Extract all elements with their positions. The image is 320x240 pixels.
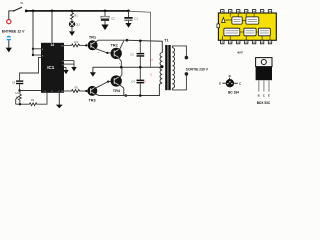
ground (C2) [101, 25, 108, 31]
notch [217, 24, 220, 28]
terminal - (blue) [6, 36, 11, 41]
svg-text:c: c [123, 47, 124, 49]
internal block D [244, 28, 256, 36]
wire pin14 to rail [51, 11, 53, 43]
svg-text:B: B [229, 74, 231, 78]
transistor BDX53C package [256, 58, 272, 106]
node rail-pin14 [51, 10, 54, 13]
resistor R1 [71, 11, 79, 20]
svg-text:SORTIE 230 V: SORTIE 230 V [186, 67, 209, 71]
svg-text:c: c [123, 75, 124, 77]
wire from + terminal to switch [9, 11, 14, 19]
svg-text:R2: R2 [31, 98, 35, 102]
wire stub pin upper [33, 48, 41, 50]
body [218, 13, 276, 40]
wire rail extension to transformer feed [129, 11, 151, 67]
node output terminal top [185, 56, 189, 60]
svg-text:C1: C1 [134, 17, 138, 21]
internal block C [224, 28, 240, 36]
ground (center line) [90, 67, 96, 76]
node rail-R1 [71, 10, 74, 13]
core [165, 45, 167, 90]
node C3 top [139, 40, 142, 43]
wire R1 to DL1 [71, 20, 73, 21]
terminal + (red, input 12V) [7, 20, 11, 24]
node TR1 base [85, 44, 87, 46]
pin marks [222, 11, 223, 12]
node IC left pin lower [32, 54, 34, 56]
node TR4 emitter junction [125, 94, 128, 97]
svg-text:TR3: TR3 [88, 98, 95, 102]
wire IC pin to timing network [20, 57, 42, 80]
4047 package drawing [217, 10, 276, 55]
node C3/C4 junction [139, 66, 142, 69]
triangle marker [222, 17, 226, 22]
transistor BC184 pinout [219, 74, 241, 95]
wire DL1 to ground [71, 27, 73, 31]
capacitor C4 [131, 67, 146, 95]
ground (DL1) [69, 31, 75, 36]
wire TR2 collector to transformer primary top [127, 40, 162, 52]
node rail-x33 [32, 10, 35, 13]
node TR2 base [106, 52, 108, 54]
node rail-C2 [104, 10, 107, 13]
svg-text:ENTREE 12 V: ENTREE 12 V [2, 30, 25, 34]
wire center line (emitters / center tap) [93, 66, 162, 68]
resistor R2 [29, 98, 37, 106]
wire +12V top rail [26, 10, 128, 12]
node timing RC [18, 89, 21, 92]
node center tap [161, 65, 164, 68]
svg-text:TR2: TR2 [111, 44, 118, 48]
ground (IC pins a) [71, 67, 76, 71]
transformer T1 [160, 39, 175, 90]
node output terminal bottom [185, 72, 189, 76]
svg-text:C: C [263, 93, 265, 97]
wire rail to C1 [128, 11, 130, 17]
svg-text:BC 184: BC 184 [228, 91, 239, 95]
transistor TR3 [88, 85, 99, 102]
node switch contact [25, 10, 28, 13]
pins top row [221, 10, 224, 14]
capacitor C2 [101, 16, 115, 21]
wire TR4 collector up [120, 67, 122, 77]
svg-text:E: E [219, 81, 221, 85]
ground (C1) [125, 23, 131, 28]
svg-text:TR1: TR1 [89, 35, 96, 39]
wire secondary bottom from output [172, 76, 186, 90]
wire stub pin lower [33, 54, 41, 56]
wire pin11 to R5 [64, 90, 72, 92]
svg-text:C: C [239, 81, 241, 85]
wire IC ground pin [58, 93, 60, 105]
svg-text:C4: C4 [131, 79, 135, 83]
wire pin10 to R4 [64, 44, 72, 46]
svg-text:IC1: IC1 [47, 65, 55, 70]
transistor TR1 [89, 35, 100, 53]
capacitor C1 [124, 17, 138, 21]
wire TR1 emitter to TR2 base [96, 49, 111, 53]
node C4 bottom [139, 94, 142, 97]
internal block A [232, 17, 242, 24]
svg-text:R5: R5 [74, 85, 78, 89]
transistor TR2 [111, 44, 124, 65]
svg-text:R4: R4 [74, 40, 78, 44]
svg-text:R1: R1 [74, 13, 78, 17]
wire C2 to ground [104, 21, 106, 25]
capacitor C3 [130, 41, 144, 67]
internal wires [229, 14, 231, 17]
svg-text:E: E [268, 93, 270, 97]
wire rail to C2 [104, 11, 106, 16]
capacitor C5 (timing) [12, 80, 23, 90]
svg-text:14: 14 [50, 43, 54, 47]
svg-text:T1: T1 [164, 39, 168, 43]
node TR4 base [107, 81, 109, 83]
wire RC node to IC pin [20, 90, 42, 92]
internal block E [258, 28, 270, 36]
wire secondary top to output [172, 46, 186, 56]
svg-text:4047: 4047 [237, 50, 243, 54]
svg-text:DL1: DL1 [76, 23, 81, 27]
node rail-C1 [127, 10, 130, 13]
pins bottom row [221, 40, 224, 44]
node TR1/TR2 collectors [126, 39, 129, 42]
trimmer AJ1 [15, 91, 21, 105]
primary winding [160, 53, 162, 83]
switch S1 [13, 1, 24, 12]
resistor R4 [72, 40, 81, 47]
svg-text:C2: C2 [111, 17, 115, 21]
LED DL1 [69, 21, 81, 27]
wire R4 to TR1 base [80, 44, 86, 46]
ground (IC pins b) [63, 70, 68, 74]
wire TR1 collector [96, 40, 127, 42]
wire rail to IC left pins [32, 11, 34, 55]
internal block B [246, 17, 259, 24]
node trimmer bottom [19, 103, 21, 105]
wire R5 to TR3 base [80, 90, 86, 92]
svg-text:TR4: TR4 [113, 89, 121, 93]
wire wiper line [16, 103, 30, 105]
node TR3 base [85, 90, 87, 92]
svg-text:S1: S1 [20, 1, 24, 5]
secondary winding [172, 48, 174, 89]
svg-text:BDX 53C: BDX 53C [257, 101, 271, 105]
wire - terminal to ground [8, 41, 10, 48]
op-amp / astable IC1 (4047) body [41, 43, 64, 93]
wire TR4 emitter to bottom rail [120, 85, 124, 96]
wire C1 to ground [128, 21, 130, 23]
transistor TR4 [112, 76, 125, 93]
svg-text:B: B [258, 93, 260, 97]
node IC left pin upper [32, 48, 34, 50]
node TR2 emitter junction [120, 66, 123, 69]
wire TR3 collector to TR4 base [96, 82, 111, 89]
svg-text:C3: C3 [130, 53, 134, 57]
ground (input) [6, 48, 12, 53]
ground (IC) [56, 105, 63, 109]
wire TR2 emitter down [119, 58, 122, 67]
wire IC unused pins to ground [64, 61, 74, 70]
wire TR3 emitter / bottom rail [95, 83, 161, 95]
wire R2 to IC pin [37, 93, 47, 104]
resistor R5 [72, 85, 81, 92]
